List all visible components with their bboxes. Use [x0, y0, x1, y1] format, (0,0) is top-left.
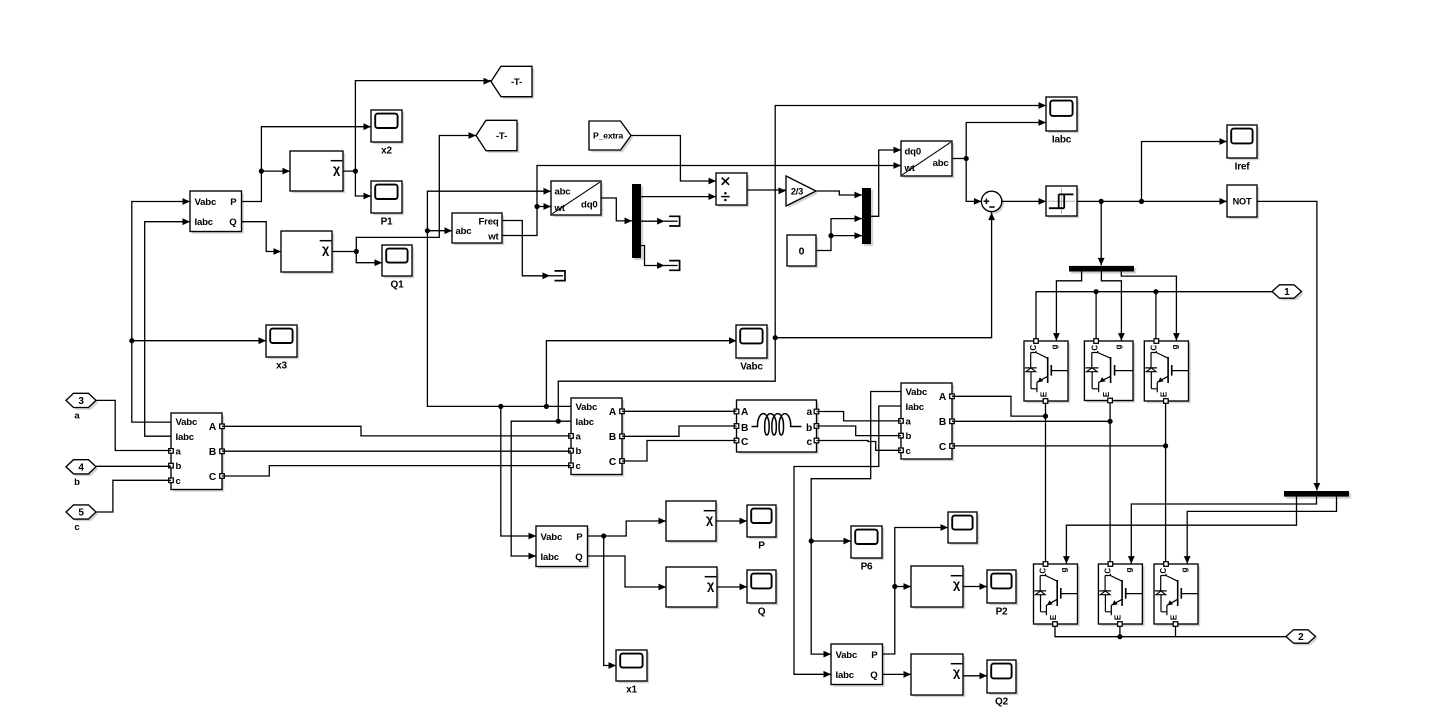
svg-text:P: P — [576, 532, 583, 543]
svg-text:abc: abc — [456, 226, 473, 237]
svg-text:C: C — [609, 457, 617, 468]
svg-text:χ: χ — [706, 512, 714, 526]
IGBT block IGBT6 — [1154, 562, 1200, 627]
port input 3 — [66, 393, 98, 409]
svg-text:P: P — [871, 650, 878, 661]
svg-text:C: C — [1103, 568, 1112, 574]
svg-text:B: B — [209, 447, 216, 458]
svg-text:a: a — [74, 410, 80, 421]
svg-text:g: g — [1114, 345, 1123, 350]
svg-text:1: 1 — [1284, 287, 1290, 298]
mean block Mean4 — [666, 567, 719, 609]
svg-text:E: E — [1049, 614, 1058, 620]
wire Mean5 to scope P2 — [963, 583, 987, 590]
scope x1 — [616, 650, 649, 696]
wire VI1 A to VI2 a — [222, 426, 571, 436]
svg-text:B: B — [609, 432, 616, 443]
IGBT block IGBT2 — [1084, 339, 1135, 403]
wire inductor b to VI3 b — [817, 426, 902, 436]
svg-text:g: g — [1124, 568, 1133, 573]
wire PM3 P output — [883, 524, 949, 654]
wire VI2 B to inductor B — [622, 426, 737, 436]
svg-text:Iabc: Iabc — [836, 670, 855, 681]
wire inductor a to VI3 a — [817, 412, 902, 421]
svg-text:Vabc: Vabc — [541, 532, 563, 543]
svg-text:C: C — [939, 442, 947, 453]
wire phase leg B vertical — [1108, 403, 1113, 561]
svg-text:2: 2 — [1298, 632, 1304, 643]
svg-text:-T-: -T- — [496, 131, 507, 142]
wire phase leg C vertical — [1163, 403, 1168, 561]
svg-text:P: P — [758, 541, 765, 552]
wire VI3 B to phase leg B — [952, 420, 1110, 422]
svg-text:A: A — [209, 422, 217, 433]
svg-text:x2: x2 — [381, 146, 392, 157]
wire gate g6 — [1184, 497, 1337, 564]
wire PM2 P output — [588, 518, 667, 669]
svg-text:0: 0 — [799, 245, 805, 257]
svg-text:B: B — [741, 423, 748, 434]
svg-text:g: g — [1050, 345, 1059, 350]
wire PM3 Q to Mean6 — [883, 671, 912, 678]
wire PLL Freq to terminator — [502, 221, 544, 276]
wire demux out3 to terminator — [641, 246, 658, 266]
svg-text:2/3: 2/3 — [791, 187, 803, 197]
svg-text:C: C — [1159, 568, 1168, 574]
wire phase leg A vertical — [1043, 403, 1048, 561]
svg-text:c: c — [906, 446, 912, 457]
wire VI3 A to phase leg A — [952, 396, 1046, 416]
mean block Mean2 — [281, 231, 334, 274]
svg-text:Iabc: Iabc — [541, 552, 560, 563]
mean block Mean6 — [911, 654, 965, 697]
scope unnamed scope — [948, 512, 979, 545]
wire gate g3 — [1121, 272, 1180, 341]
svg-text:C: C — [741, 437, 749, 448]
wire gate g5 — [1128, 497, 1317, 564]
IGBT block IGBT3 — [1144, 339, 1190, 404]
scope P1 — [371, 181, 404, 228]
wire Mean2 output — [332, 132, 476, 266]
scope x2 — [371, 110, 404, 157]
svg-text:a: a — [906, 417, 912, 428]
three-phase VI measurement block VI2 — [569, 398, 625, 477]
goto tag -T- lower — [476, 120, 519, 153]
wire gate g4 — [1063, 497, 1297, 564]
wire gate g1 — [1053, 272, 1082, 341]
wire VI1 Vabc to PM1 Vabc — [129, 198, 190, 422]
IGBT block IGBT1 — [1024, 339, 1070, 404]
svg-text:A: A — [609, 407, 617, 418]
svg-text:Q2: Q2 — [995, 697, 1009, 708]
wire NOT output to lower demux bar — [1257, 201, 1320, 490]
svg-text:Freq: Freq — [479, 216, 499, 227]
svg-text:c: c — [807, 437, 813, 448]
mean block Mean5 — [911, 566, 965, 609]
mean block Mean1 — [290, 151, 345, 193]
svg-text:χ: χ — [953, 577, 961, 591]
wire VI3 C to phase leg C — [952, 445, 1166, 447]
svg-text:b: b — [74, 477, 80, 488]
relay block — [1046, 186, 1079, 218]
svg-text:P6: P6 — [861, 562, 873, 573]
wire demux out1 to product — [641, 193, 716, 200]
svg-text:E: E — [1160, 391, 1169, 397]
svg-text:b: b — [906, 431, 912, 442]
svg-text:NOT: NOT — [1233, 197, 1252, 207]
svg-text:χ: χ — [322, 242, 330, 256]
port input 5 — [66, 505, 98, 521]
scope Iabc — [1046, 97, 1079, 146]
svg-text:wt: wt — [554, 203, 566, 214]
svg-text:Iabc: Iabc — [1052, 135, 1072, 146]
wire VI3 Vabc to PM3 Vabc and scope P6 — [809, 392, 901, 658]
svg-text:Iref: Iref — [1235, 162, 1251, 173]
svg-text:b: b — [176, 461, 182, 472]
svg-text:Q: Q — [758, 607, 766, 618]
demux vertical bar — [632, 184, 643, 260]
wire VI1 C to VI2 c — [222, 466, 571, 476]
svg-text:P: P — [230, 197, 237, 208]
wire relay tap to demux bar — [1098, 201, 1105, 265]
svg-text:dq0: dq0 — [581, 200, 597, 211]
svg-text:Vabc: Vabc — [176, 417, 198, 428]
svg-text:g: g — [1060, 568, 1069, 573]
scope x3 — [266, 325, 299, 372]
svg-text:Vabc: Vabc — [740, 362, 763, 373]
IGBT block IGBT4 — [1034, 562, 1080, 627]
svg-text:c: c — [176, 476, 182, 487]
svg-text:Vabc: Vabc — [576, 402, 598, 413]
wire VI2 Vabc bus to abc-dq0 and PLL — [425, 188, 571, 409]
scope Vabc — [736, 325, 769, 373]
three-phase inductor block — [734, 400, 819, 454]
terminator terminator 3 — [657, 261, 680, 271]
svg-text:Q1: Q1 — [391, 280, 405, 291]
horizontal demux bar lower — [1284, 491, 1351, 499]
svg-text:Iabc: Iabc — [576, 417, 595, 428]
scope Iref — [1227, 125, 1259, 173]
gain block 2/3 — [786, 176, 818, 208]
svg-text:Vabc: Vabc — [906, 387, 928, 398]
svg-text:c: c — [576, 461, 582, 472]
svg-text:Q: Q — [575, 552, 583, 563]
NOT logical operator block — [1227, 185, 1259, 219]
wire relay output to NOT — [1077, 198, 1227, 205]
wire input 5 to VI1 c — [96, 480, 171, 512]
wire Mean4 to scope Q — [717, 583, 747, 590]
three-phase VI measurement block VI3 — [899, 383, 955, 461]
port input 4 — [66, 460, 98, 476]
svg-text:Vabc: Vabc — [195, 197, 217, 208]
wire dq0-abc output to scope Iabc and sum — [952, 119, 1046, 205]
svg-text:E: E — [1102, 391, 1111, 397]
from tag P_extra — [589, 121, 633, 152]
dq0 to abc transform block — [901, 141, 954, 178]
wire P tap to Mean1 — [261, 168, 290, 175]
svg-text:Iabc: Iabc — [176, 432, 195, 443]
svg-text:C: C — [1029, 345, 1038, 351]
wire inductor c to VI3 c — [817, 441, 902, 451]
svg-text:x3: x3 — [276, 361, 287, 372]
svg-text:Vabc: Vabc — [836, 650, 858, 661]
wire abc-dq0 output to demux — [601, 198, 632, 224]
svg-text:C: C — [1149, 345, 1158, 351]
wire PLL wt to transforms — [502, 162, 901, 235]
svg-text:wt: wt — [487, 232, 499, 243]
scope Q1 — [382, 245, 414, 291]
wire Vabc tap to PM2 Vabc — [501, 406, 536, 539]
scope P6 — [851, 526, 884, 573]
svg-text:abc: abc — [555, 186, 572, 197]
mean block Mean3 — [666, 501, 718, 543]
constant block 0 — [787, 235, 818, 268]
terminator terminator 1 — [543, 271, 566, 281]
svg-text:B: B — [939, 417, 946, 428]
terminator terminator 2 — [657, 216, 680, 226]
svg-text:x1: x1 — [626, 685, 637, 696]
svg-text:χ: χ — [953, 665, 961, 679]
PLL block abc to Freq wt — [452, 213, 504, 245]
wire P_extra to product — [631, 136, 716, 185]
wire sum to relay — [1002, 198, 1046, 205]
sum block — [981, 191, 1004, 214]
wire emitter bus to output 2 — [1055, 626, 1286, 639]
power measurement block PM3 — [831, 644, 885, 687]
port output 1 — [1272, 285, 1304, 301]
wire VI2 A to inductor A — [622, 410, 737, 412]
wire PM2 Q to Mean4 — [588, 556, 667, 590]
scope Q — [747, 570, 778, 618]
scope Q2 — [987, 660, 1018, 708]
port output 2 — [1286, 630, 1318, 646]
wire Vabc tap to scope Vabc — [546, 337, 736, 406]
wire product to gain — [747, 187, 786, 194]
wire gate g2 — [1101, 272, 1124, 341]
scope P2 — [987, 570, 1018, 618]
wire constant 0 to mux — [816, 215, 862, 250]
svg-text:P_extra: P_extra — [593, 131, 623, 141]
wire Mean1 output — [343, 78, 491, 200]
wire tap to scope x3 — [132, 337, 266, 344]
svg-text:b: b — [806, 423, 812, 434]
wire VI1 Iabc to PM1 Iabc — [145, 218, 190, 436]
three-phase VI measurement block VI1 — [169, 413, 225, 492]
wire PM1 Q to Mean2 — [242, 222, 281, 255]
wire demux out2 to terminator — [641, 220, 658, 222]
svg-text:χ: χ — [333, 162, 341, 176]
svg-text:g: g — [1170, 345, 1179, 350]
svg-text:Iabc: Iabc — [906, 402, 925, 413]
wire input 3 to VI1 a — [96, 400, 171, 450]
svg-text:C: C — [1039, 568, 1048, 574]
wire collector bus to output 1 — [1036, 289, 1272, 339]
svg-text:C: C — [1091, 345, 1100, 351]
svg-text:dq0: dq0 — [905, 147, 921, 158]
svg-text:5: 5 — [78, 508, 84, 519]
wire input 4 to VI1 b — [96, 465, 171, 467]
horizontal demux bar upper — [1069, 266, 1136, 274]
svg-text:A: A — [939, 392, 947, 403]
wire Mean6 to scope Q2 — [963, 672, 987, 679]
svg-text:E: E — [1114, 614, 1123, 620]
IGBT block IGBT5 — [1098, 562, 1144, 627]
scope P — [747, 505, 778, 552]
svg-text:4: 4 — [78, 462, 84, 473]
svg-text:P1: P1 — [381, 217, 393, 228]
svg-text:Q: Q — [870, 670, 878, 681]
svg-text:χ: χ — [707, 578, 715, 592]
wire VI1 B to VI2 b — [222, 450, 571, 452]
wire relay tap to scope Iref — [1142, 138, 1228, 201]
svg-text:g: g — [1180, 568, 1189, 573]
svg-text:Iabc: Iabc — [195, 217, 214, 228]
svg-text:P2: P2 — [996, 607, 1008, 618]
mux vertical bar — [862, 188, 873, 246]
wire PM1 P to scope x2 — [242, 123, 371, 201]
svg-text:E: E — [1039, 391, 1048, 397]
wire VI2 Iabc to PM2 Iabc and Iabc riser — [511, 102, 1046, 559]
svg-text:b: b — [576, 446, 582, 457]
svg-text:A: A — [741, 407, 749, 418]
svg-text:3: 3 — [78, 396, 84, 407]
power measurement block PM1 — [190, 191, 244, 234]
goto tag -T- upper — [491, 66, 534, 99]
power measurement block PM2 — [536, 526, 590, 569]
wire Mean3 to scope P — [716, 518, 747, 525]
wire mux to dq0-abc — [871, 147, 901, 217]
svg-text:a: a — [176, 447, 182, 458]
svg-text:a: a — [576, 432, 582, 443]
svg-text:C: C — [209, 472, 217, 483]
svg-text:E: E — [1169, 614, 1178, 620]
svg-text:-T-: -T- — [511, 77, 522, 88]
wire VI2 C to inductor C — [622, 441, 737, 462]
abc to dq0 transform block — [551, 181, 603, 217]
wire VI3 Iabc to PM3 Iabc — [794, 406, 901, 678]
svg-text:wt: wt — [904, 163, 916, 174]
svg-text:abc: abc — [933, 158, 950, 169]
product block multiply divide — [716, 173, 749, 207]
svg-text:c: c — [74, 522, 80, 533]
wire gain to mux — [816, 191, 862, 198]
svg-text:a: a — [807, 407, 813, 418]
svg-text:Q: Q — [229, 217, 237, 228]
